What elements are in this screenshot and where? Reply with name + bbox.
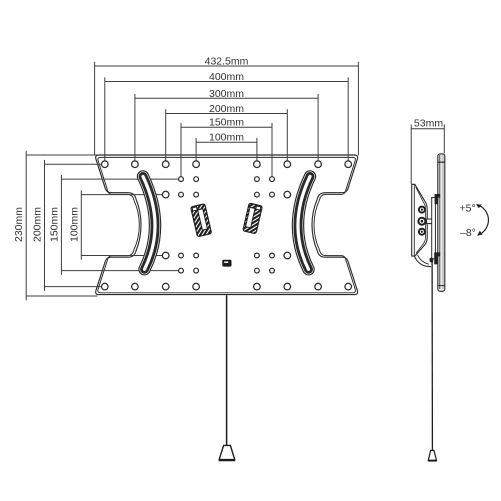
svg-text:+5°: +5° — [460, 203, 476, 215]
bottom hook cross-section (dark) — [434, 252, 440, 264]
svg-text:200mm: 200mm — [209, 103, 244, 115]
svg-text:300mm: 300mm — [209, 88, 244, 100]
holes row B' — [179, 268, 275, 273]
dimension 150mm — [181, 123, 272, 179]
dimension 432.5mm — [95, 62, 359, 156]
bracket bottom tail — [414, 256, 431, 267]
cord front view — [226, 295, 228, 445]
dimension 150mm (left) — [61, 175, 181, 275]
svg-text:150mm: 150mm — [49, 207, 61, 242]
tilt arc with arrows — [477, 205, 489, 236]
dimension 230mm (left) — [26, 151, 97, 301]
holes row C — [162, 191, 290, 198]
arc slot left — [143, 177, 155, 270]
cord handle cone side — [428, 450, 436, 460]
side bar (TV plate edge-on) — [438, 154, 445, 291]
dimension 100mm (left) — [81, 190, 165, 259]
dimension 400mm — [105, 77, 348, 164]
svg-text:100mm: 100mm — [209, 132, 244, 144]
svg-text:400mm: 400mm — [209, 71, 244, 83]
svg-text:53mm: 53mm — [414, 117, 443, 129]
top hook cross-section (dark) — [435, 194, 441, 204]
dimension 300mm — [135, 94, 318, 164]
holes row A' (bottom) — [102, 283, 352, 290]
svg-text:432.5mm: 432.5mm — [205, 56, 249, 68]
cord side view — [431, 261, 433, 451]
adapter strip side view — [432, 198, 436, 259]
dimension 53mm — [411, 125, 444, 185]
svg-text:100mm: 100mm — [68, 207, 80, 242]
arc slot right — [298, 177, 310, 270]
plate outline inner (formed edge) — [98, 157, 356, 292]
hook right — [243, 203, 263, 234]
cord handle cone front — [219, 445, 235, 459]
holes row B — [179, 177, 275, 182]
dimension 200mm (left) — [45, 160, 105, 291]
svg-text:150mm: 150mm — [209, 117, 244, 129]
svg-text:230mm: 230mm — [13, 207, 25, 242]
dimension 100mm top — [196, 138, 257, 164]
center lock clip — [222, 260, 231, 267]
latch knob — [430, 258, 434, 263]
holes row C' — [162, 252, 290, 259]
svg-text:200mm: 200mm — [32, 207, 44, 242]
bolt heads on bracket — [418, 207, 425, 235]
wall bracket side view — [412, 184, 428, 256]
dimension 200mm — [166, 109, 288, 164]
svg-text:–8°: –8° — [460, 227, 476, 239]
plate outline outer — [96, 155, 358, 295]
holes row A (top) — [102, 161, 352, 168]
hook left — [191, 204, 212, 237]
